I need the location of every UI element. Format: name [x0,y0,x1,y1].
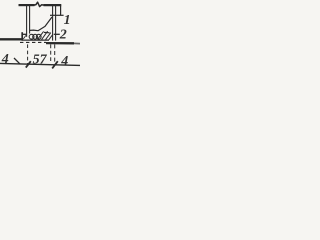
svg-text:2: 2 [59,28,67,43]
right post (double line) [52,6,54,41]
hatch stroke c [42,31,48,39]
ground line faded tail [74,42,80,44]
left ground line [0,38,22,40]
tick at right axis [52,61,58,68]
svg-text:4: 4 [60,54,68,69]
circle fill symbol left [29,34,34,39]
circle fill symbol right [36,34,41,39]
small stone dash in hatch [44,31,50,33]
mound outline (irregular slope) [30,17,52,31]
hidden dashed line under base [20,41,46,43]
dimension line [0,63,80,65]
circle fill symbol middle [33,34,38,39]
tick at left axis [26,61,31,67]
right extension dashed (inner) [50,44,52,62]
left arrow stroke [14,58,20,64]
top rail bar (left segment) [19,4,35,6]
left axis dashed extension [27,44,29,63]
hatch stroke e [49,34,53,39]
left post (double line) [26,6,28,37]
hatch stroke b [38,31,44,39]
svg-text:4: 4 [1,52,9,67]
svg-text:57: 57 [33,52,48,67]
paper background [0,0,80,72]
leader shelf for label 2 [54,33,60,35]
base line of block [22,39,49,41]
break squiggle in top rail [34,2,44,6]
foundation left edge [21,32,23,40]
right ground line [46,42,74,45]
right end hook of rail [60,6,62,16]
hatch stroke a [23,35,26,39]
right axis dashed extension [54,44,56,64]
top rail bar (right segment) [44,4,62,6]
hatch stroke d [46,33,51,40]
svg-text:1: 1 [64,13,71,28]
link bar to post [23,33,27,35]
leader shelf for label 1 [50,14,64,16]
